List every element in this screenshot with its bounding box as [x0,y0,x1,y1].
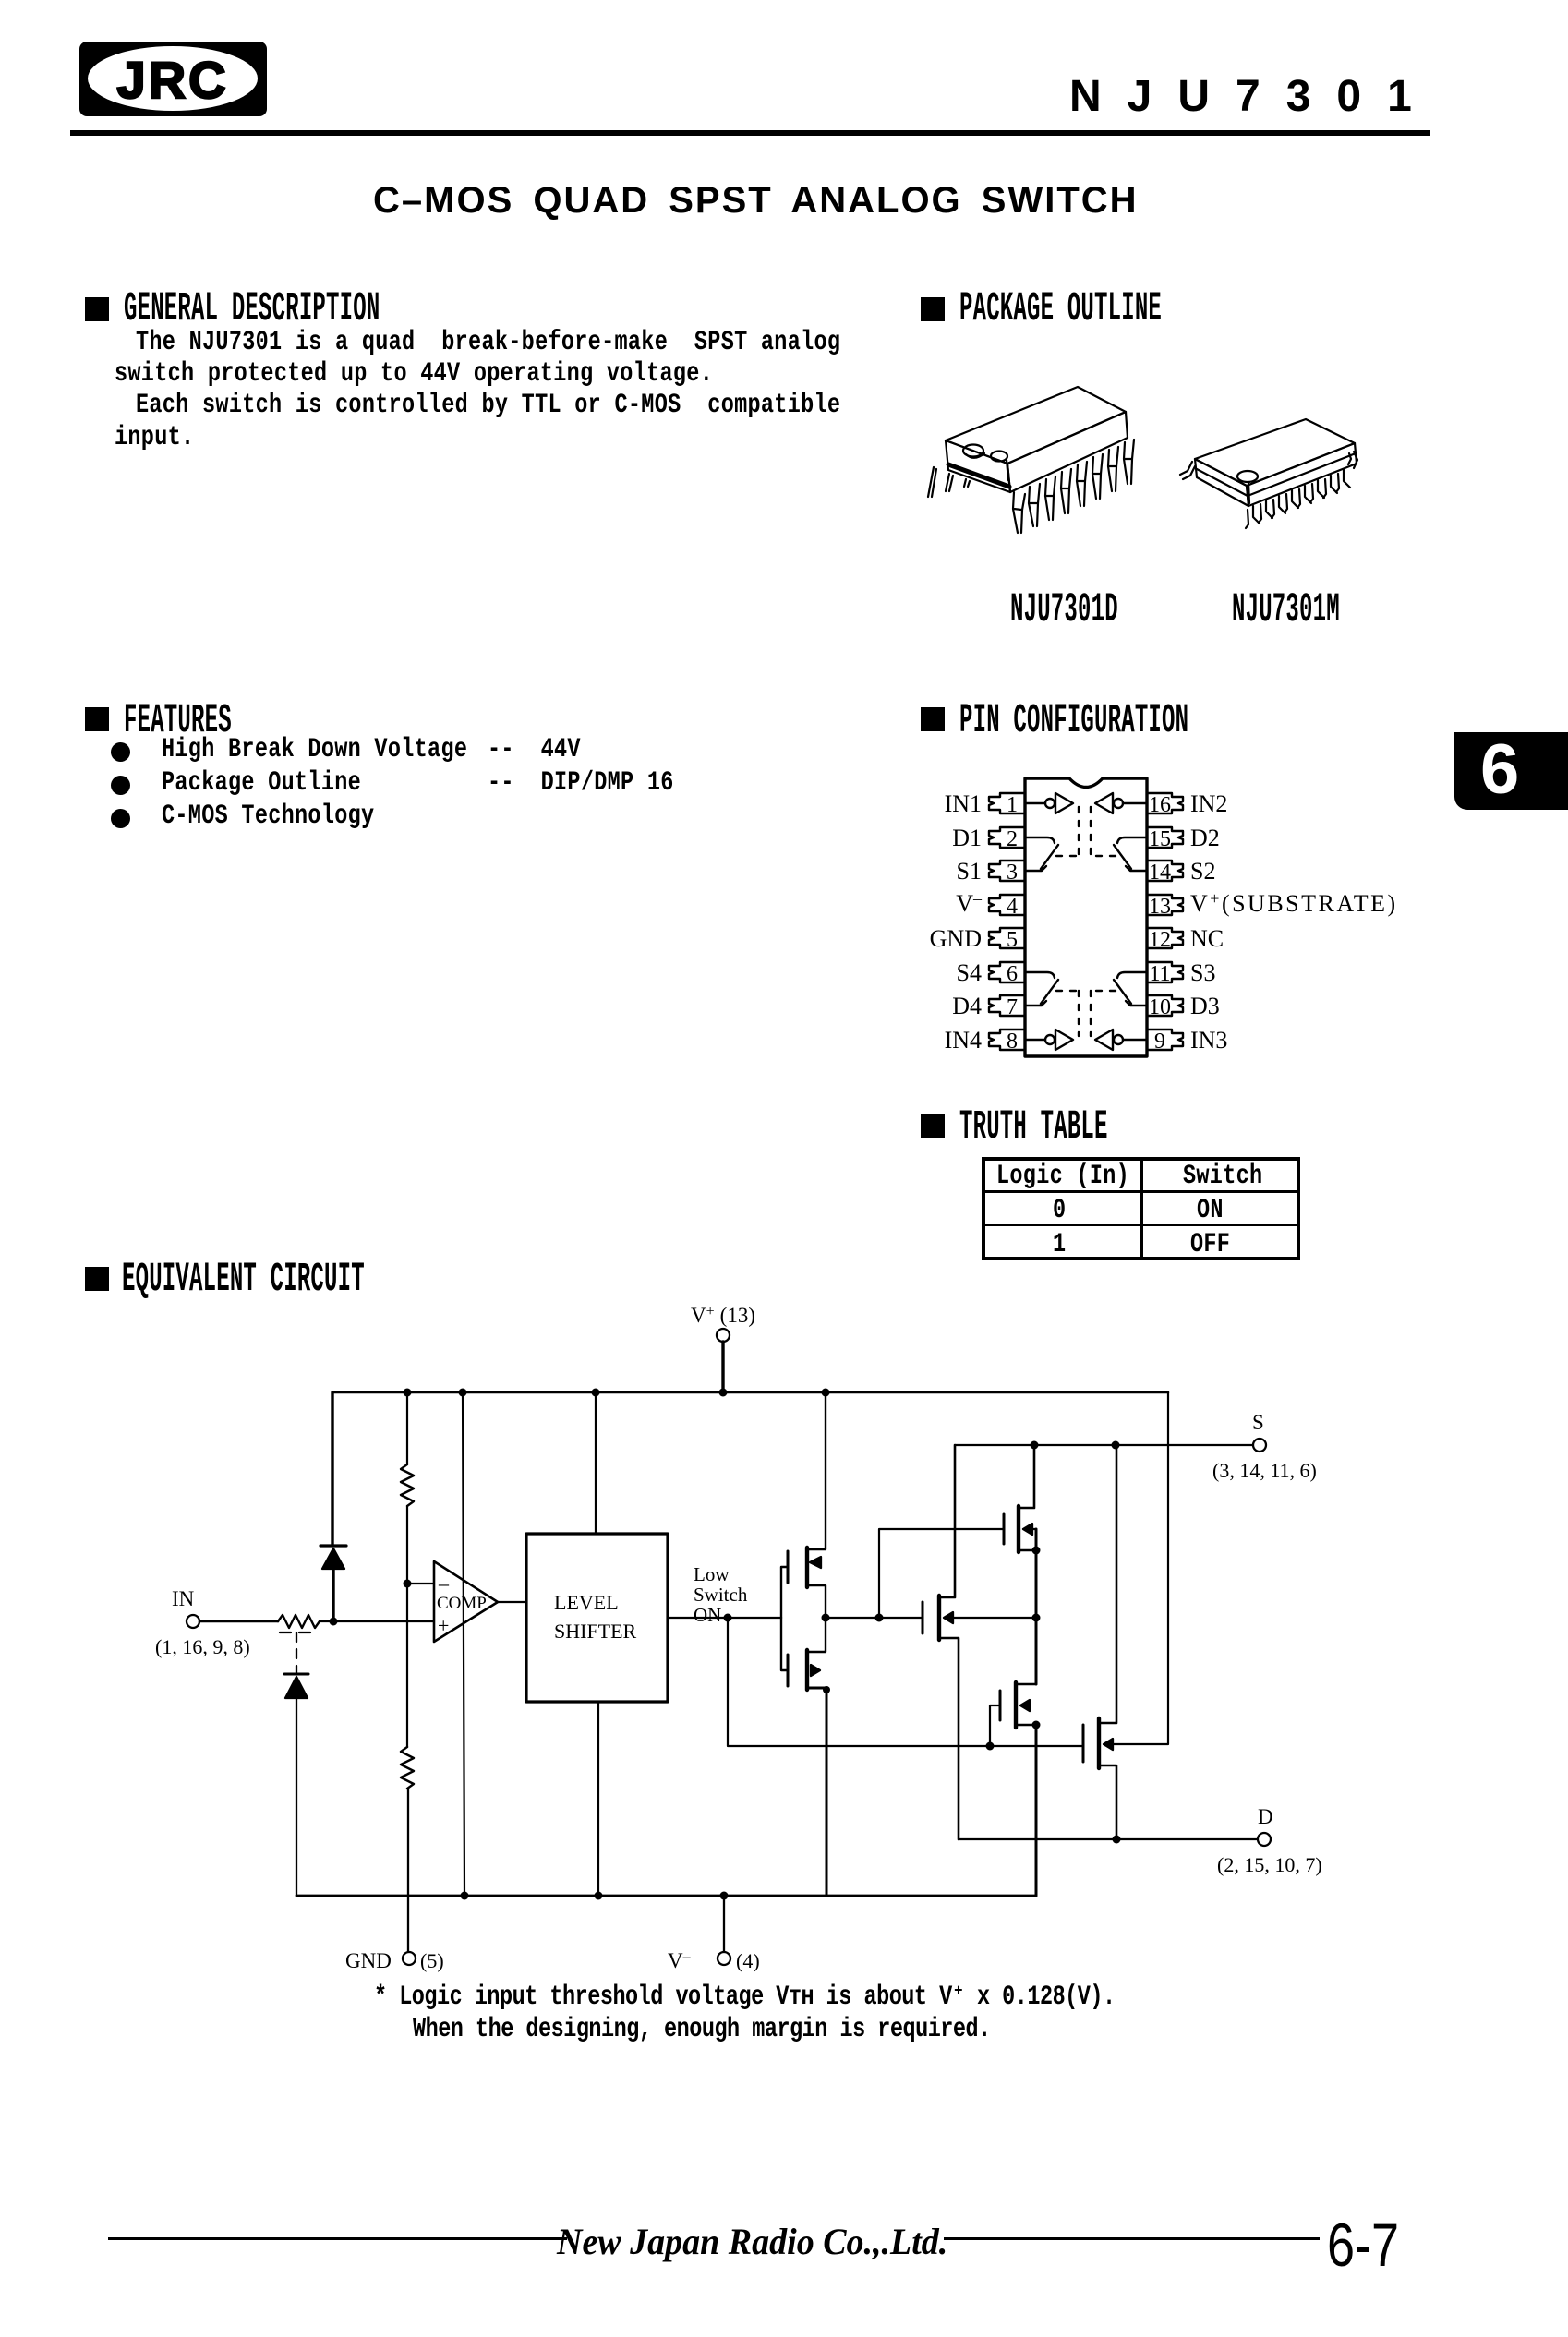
pin 6 box [989,962,1025,982]
DIP-16 package NJU7301D [928,387,1134,533]
pin 1 box [989,793,1025,813]
junction IN node [330,1618,338,1626]
front gull-wing legs [1246,506,1260,528]
pin 16 box [1147,793,1183,813]
wire comparator output [498,1601,526,1603]
resistor R2 [401,1747,414,1789]
pin 3 box [989,861,1025,881]
wire comparator minus input [407,1583,434,1584]
pin 4 box [989,895,1025,915]
wire R1 R2 rail top [406,1392,408,1464]
junction level shifter output [724,1614,732,1622]
junction M7 source [1032,1721,1041,1729]
svg-text:(5): (5) [420,1949,444,1972]
junction top bus at R1 [404,1389,412,1397]
svg-text:S: S [1252,1411,1264,1434]
IN2 buffer [1095,793,1147,813]
left end face [946,440,1010,492]
svg-text:(2, 15, 10, 7): (2, 15, 10, 7) [1217,1853,1322,1876]
svg-text:(1, 16, 9, 8): (1, 16, 9, 8) [155,1635,250,1658]
dashed stem to D2 [296,1632,297,1666]
svg-text:LEVEL: LEVEL [554,1591,619,1614]
transistor M7 PMOS cascode [990,1682,1036,1746]
transistor M5 NMOS switch half [923,1445,1034,1839]
switch SW4 [1025,972,1079,1006]
front-row legs [1013,492,1025,533]
pin 11 box [1147,962,1183,982]
junction bottom bus level shifter [595,1892,603,1900]
resistor R1 [401,1464,414,1506]
svg-text:SHIFTER: SHIFTER [554,1620,637,1643]
dashed body of R3 [280,1632,319,1633]
back-row legs [928,467,936,497]
top face [1195,419,1355,486]
svg-text:ON: ON [694,1604,721,1626]
svg-text:V–: V– [668,1949,692,1972]
junction gate link node [875,1614,884,1622]
IC body DIP-16 outline [1025,778,1147,1056]
left end face [1195,459,1248,506]
node GND terminal (5) [345,1949,444,1972]
index circle [1237,471,1258,482]
junction top bus at V+ stem [719,1389,728,1397]
junction M4 drain [1032,1547,1041,1555]
svg-text:D: D [1258,1805,1273,1828]
svg-text:V+(13): V+(13) [691,1304,755,1327]
left end gull leg [1180,462,1195,479]
wire bottom V- bus [296,1895,1036,1897]
index dimple large [963,445,983,457]
wire V- stem [723,1896,725,1952]
IN3 buffer [1095,1030,1147,1050]
pin 7 box [989,995,1025,1016]
svg-text:GND: GND [345,1949,392,1972]
switch SW1 [1025,837,1079,871]
node IN terminal (1,16,9,8) [155,1587,250,1658]
control dashed lines bottom [1079,991,1091,1036]
pin 8 box [989,1030,1025,1050]
diode D2 (clamp to V-) [284,1674,308,1698]
junction top bus at M1 source [822,1389,830,1397]
wire V+ stem [721,1342,724,1392]
svg-text:Low: Low [694,1563,730,1585]
node V+ terminal (13) [691,1304,755,1342]
switch SW2 [1091,837,1147,871]
IN4 buffer [1025,1030,1073,1050]
control dashed lines top [1079,807,1091,856]
pin 10 box [1147,995,1183,1016]
wire level shifter top supply [595,1392,597,1534]
wire bulk rail lower [1035,1725,1038,1896]
chapter tab 6 [1454,732,1568,810]
wire comparator power rail [463,1392,464,1896]
node V- terminal (4) [668,1949,760,1972]
transistor M4 PMOS upper right [1004,1445,1036,1552]
svg-text:Switch: Switch [694,1584,748,1606]
wire bulk rail upper [1035,1529,1038,1684]
pin numbers [1007,793,1171,1054]
wire D1 bottom stem [332,1569,334,1621]
level shifter U1 box [526,1534,668,1702]
wire IN lead [199,1620,278,1623]
svg-text:(4): (4) [736,1949,760,1972]
wire inverter output to M5 gate [826,1617,923,1619]
diode D1 (clamp to V+) [320,1546,346,1569]
wire D bus [959,1838,1258,1840]
junction M7 gate tap [986,1742,995,1751]
pin 5 box [989,928,1025,948]
front face [1247,443,1357,506]
pin 12 box [1147,928,1183,948]
wire IN node to comparator [320,1620,434,1622]
junction top bus at comparator rail [459,1389,467,1397]
pin name labels [930,790,1398,1054]
junction S bus at M4 [1031,1441,1039,1450]
transistor M6 NMOS switch half [1083,1445,1116,1839]
wire level shifter bottom supply [597,1702,599,1896]
pin 2 box [989,827,1025,848]
wire gate link to M4 [879,1529,1004,1618]
junction inverter output [822,1614,830,1622]
junction M2 source elbow [823,1686,830,1693]
junction S bus at M6 [1112,1441,1120,1450]
svg-text:(3, 14, 11, 6): (3, 14, 11, 6) [1212,1459,1317,1482]
index dimple small [991,452,1007,462]
wire D1 top stem [331,1392,333,1546]
seam lines [1197,469,1248,496]
transistor M1 PMOS inverter top [781,1392,826,1618]
wire right V+ rail [1111,1392,1168,1744]
node S terminal (3,14,11,6) [1212,1411,1317,1482]
junction D bus at M6 [1113,1836,1121,1844]
wire R1 to R2 [406,1506,408,1747]
wire top V+ bus [332,1391,1168,1394]
junction comparator minus tap [404,1580,412,1588]
svg-text:COMP: COMP [437,1594,487,1613]
wire level shifter output [668,1617,781,1619]
junction bottom bus comparator rail [461,1892,469,1900]
SOP-16 package NJU7301M [1180,419,1357,528]
top face [946,387,1126,464]
svg-text:+: + [438,1614,449,1637]
node D terminal (2,15,10,7) [1217,1805,1322,1876]
pin 13 box [1147,895,1183,915]
junction bulk rail at M5 [1032,1614,1041,1622]
wire S bus [955,1444,1253,1446]
switch SW3 [1091,972,1147,1006]
wire gate drive drop [728,1618,1083,1746]
transistor M2 NMOS inverter bottom [781,1618,826,1896]
junction bottom bus V- stem [720,1892,729,1900]
pin 14 box [1147,861,1183,881]
resistor R3 input series [278,1615,320,1628]
svg-text:IN: IN [172,1587,195,1610]
svg-text:–: – [438,1572,450,1595]
front face [1007,412,1128,492]
wire D2 bottom stem [296,1698,297,1896]
wire R2 to GND terminal [407,1789,409,1952]
pin 15 box [1147,827,1183,848]
IN1 buffer [1025,793,1073,813]
mold seam thick [948,464,1009,487]
junction top bus at level shifter [592,1389,600,1397]
pin 9 box [1147,1030,1183,1050]
op-amp COMP comparator [434,1561,498,1642]
footnote [374,1984,1116,2012]
